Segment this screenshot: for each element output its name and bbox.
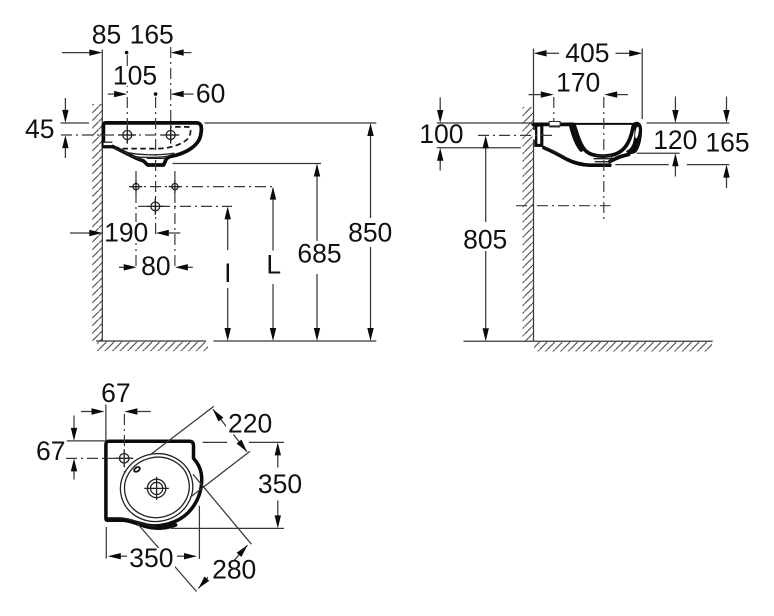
dimension 105/60 dot xyxy=(154,92,158,96)
front fixing hole 1 axis xyxy=(135,171,137,269)
basin side bracket slot xyxy=(533,130,536,140)
dimension 190 right arrow xyxy=(156,230,181,236)
side bowl axis xyxy=(603,97,605,222)
dimension 805 line xyxy=(483,135,489,341)
dimension 850 ref line xyxy=(205,122,377,124)
dimension 45 top ref line xyxy=(61,122,89,124)
front fixing hole crosshair 1 xyxy=(130,180,142,192)
floor hatching side xyxy=(534,342,712,352)
svg-text:280: 280 xyxy=(212,554,256,584)
diagonal ref line C xyxy=(193,474,251,544)
label 165 xyxy=(129,20,174,50)
dimension 685 line xyxy=(314,164,320,342)
label 190 xyxy=(103,217,150,247)
dimension 100 top ref line xyxy=(437,122,534,124)
dimension 67 top right arrow xyxy=(124,408,150,414)
label 100 xyxy=(418,119,465,149)
label 120 xyxy=(653,125,699,155)
svg-text:850: 850 xyxy=(348,218,392,248)
svg-text:405: 405 xyxy=(565,38,609,68)
dimension 120 bottom ref line xyxy=(637,152,680,154)
dimension 85 line xyxy=(62,49,102,55)
dimension 100 bottom ref line xyxy=(437,147,521,149)
basin front drain stub top line xyxy=(147,157,167,159)
basin side deck top xyxy=(533,123,573,127)
dimension 120/165 top ref line xyxy=(647,122,730,124)
diagonal ref line D xyxy=(137,524,196,592)
label 85 xyxy=(92,20,121,50)
label 60 xyxy=(195,78,226,108)
dimension 165 top arrow xyxy=(723,97,729,124)
basin plan inner skirt line xyxy=(107,518,157,527)
basin side bowl section outer xyxy=(574,124,635,156)
dimension L line xyxy=(270,187,276,341)
dimension 350 bottom left ext line xyxy=(105,527,107,559)
label 280 xyxy=(208,554,259,584)
dimension 280 upper arrow xyxy=(233,545,247,562)
dimension 60 arrow xyxy=(171,91,194,97)
basin side far rim line xyxy=(574,123,636,125)
basin front outline xyxy=(103,123,201,165)
dimension 170 right arrow xyxy=(604,91,628,97)
front fixing holes horizontal axis xyxy=(129,186,276,188)
basin plan drain cross xyxy=(144,477,169,500)
label 685 xyxy=(294,239,343,269)
svg-text:685: 685 xyxy=(297,239,341,269)
svg-text:350: 350 xyxy=(258,469,302,499)
side fixing hole axis xyxy=(478,134,552,136)
dimension 120 bottom arrow xyxy=(672,153,678,176)
basin side tap hole xyxy=(549,122,560,126)
basin side right hook loop xyxy=(626,122,642,155)
svg-text:60: 60 xyxy=(196,78,225,108)
basin front bowl near bottom arc xyxy=(132,156,171,158)
svg-text:220: 220 xyxy=(228,408,272,438)
label 350 right xyxy=(255,469,304,499)
basin side bowl section inner wall xyxy=(571,126,581,150)
front tap hole 2 axis xyxy=(170,47,172,143)
basin front bowl far rim arc xyxy=(125,152,175,155)
label I xyxy=(222,258,234,288)
dimension 350 right bottom ref line xyxy=(171,527,284,529)
front fixing hole crosshair 2 xyxy=(169,180,181,192)
basin side back bracket xyxy=(536,125,542,145)
svg-text:85: 85 xyxy=(92,20,121,50)
dimension 45 bottom arrow xyxy=(62,135,68,158)
svg-text:105: 105 xyxy=(113,60,157,90)
dimension 67 left bottom arrow xyxy=(71,458,77,479)
basin plan tap hole crosshair xyxy=(120,454,129,463)
svg-text:100: 100 xyxy=(419,119,463,149)
basin front inner apron line xyxy=(114,148,141,160)
basin plan bowl inner rim xyxy=(118,450,196,524)
label 170 xyxy=(554,67,602,97)
label 850 xyxy=(347,218,395,248)
diagonal ref line A xyxy=(150,406,214,455)
side siphon axis cross xyxy=(516,205,611,207)
wall line front xyxy=(101,50,103,342)
dimension 405 ext line right xyxy=(641,49,643,120)
floor hatching front xyxy=(97,342,208,352)
basin plan drain inner circle xyxy=(151,482,163,494)
dimension 67 top ext line xyxy=(105,405,107,441)
label 220 xyxy=(226,408,274,438)
dimension 85/165 dot xyxy=(125,51,129,55)
front drain crosshair xyxy=(147,198,164,215)
front fixing hole 2 axis xyxy=(174,171,176,269)
basin plan overflow hole xyxy=(133,466,140,473)
side tap axis xyxy=(553,97,555,122)
dimension 80 right arrow xyxy=(175,264,193,270)
dimension 850 line xyxy=(367,123,373,341)
dimension 350 right line xyxy=(275,442,281,528)
svg-text:190: 190 xyxy=(104,217,148,247)
plan tap hole axis vertical xyxy=(123,414,125,474)
label 45 xyxy=(24,114,56,144)
basin front left step notch xyxy=(104,142,113,145)
plan tap hole axis horizontal xyxy=(66,457,131,459)
dimension 80 left arrow xyxy=(119,264,137,270)
dimension 105 line xyxy=(108,91,127,97)
dimension 685 ref line xyxy=(173,163,322,165)
label L xyxy=(265,250,283,280)
dimension 190 left arrow xyxy=(70,230,102,236)
dimension 350 bottom line xyxy=(108,553,197,559)
dimension 165 bottom arrow xyxy=(723,165,729,188)
dimension 100 bottom arrow xyxy=(437,148,443,171)
label 67 left xyxy=(35,436,66,466)
svg-text:45: 45 xyxy=(25,114,54,144)
floor line side xyxy=(464,340,713,342)
svg-text:L: L xyxy=(266,250,281,280)
svg-text:67: 67 xyxy=(101,378,130,408)
dimension 67 top left arrow xyxy=(81,408,105,414)
floor line front xyxy=(96,340,206,342)
svg-text:120: 120 xyxy=(653,125,697,155)
dimension 45 top arrow xyxy=(62,98,68,123)
basin side hook slit xyxy=(634,126,639,138)
dimension 165 arrow xyxy=(171,49,192,55)
svg-text:350: 350 xyxy=(129,543,173,573)
dimension 280 lower arrow xyxy=(198,572,212,589)
label 67 top xyxy=(100,378,131,408)
basin plan skirt dip xyxy=(124,520,175,528)
front drain horizontal axis xyxy=(138,205,232,207)
dimension 67 left top arrow xyxy=(71,416,77,441)
dimension 165 bottom ref line xyxy=(615,164,729,166)
diagonal ref line B xyxy=(190,451,250,497)
dimension I line xyxy=(225,206,231,341)
svg-text:67: 67 xyxy=(36,436,65,466)
svg-text:805: 805 xyxy=(463,224,507,254)
basin plan outline xyxy=(106,441,202,526)
dimension 350 right top ref line xyxy=(203,441,285,443)
front tap hole crosshair 2 xyxy=(162,126,179,143)
basin plan drain outer circle xyxy=(147,479,165,497)
label 80 xyxy=(140,251,171,281)
svg-text:165: 165 xyxy=(705,128,749,158)
dimension 220 upper arrow xyxy=(213,409,227,426)
basin side apron inner line xyxy=(545,147,566,157)
front tap hole crosshair 1 xyxy=(119,126,136,143)
dimension 405 line xyxy=(534,50,643,56)
basin side hook bottom sweep xyxy=(610,155,629,162)
label 105 xyxy=(112,60,158,90)
svg-text:170: 170 xyxy=(556,67,600,97)
dimension 67 left ref line xyxy=(67,440,105,442)
dimension 220 lower arrow xyxy=(234,435,248,452)
dimension 100 top arrow xyxy=(437,98,443,124)
front tap hole 1 axis xyxy=(126,55,128,143)
label 350 bottom xyxy=(127,543,175,573)
wall hatching front xyxy=(92,104,102,341)
svg-text:80: 80 xyxy=(141,251,170,281)
svg-text:I: I xyxy=(224,258,231,288)
label 165 side xyxy=(704,128,751,158)
basin plan bowl outer rim xyxy=(113,446,200,529)
label 805 xyxy=(462,224,509,254)
dimension 170 left arrow xyxy=(529,91,554,97)
label 405 xyxy=(562,38,613,68)
wall line side xyxy=(533,49,535,342)
front tap holes horizontal axis xyxy=(61,134,181,136)
basin front hidden inner rim (dashed) xyxy=(114,127,191,149)
basin side drain steps xyxy=(593,156,612,162)
dimension 350 bottom right ext line xyxy=(198,506,200,559)
basin side underside xyxy=(544,148,610,165)
front center axis xyxy=(155,97,157,237)
svg-text:165: 165 xyxy=(130,20,174,50)
wall hatching side xyxy=(523,107,534,341)
dimension 120 top arrow xyxy=(672,97,678,124)
